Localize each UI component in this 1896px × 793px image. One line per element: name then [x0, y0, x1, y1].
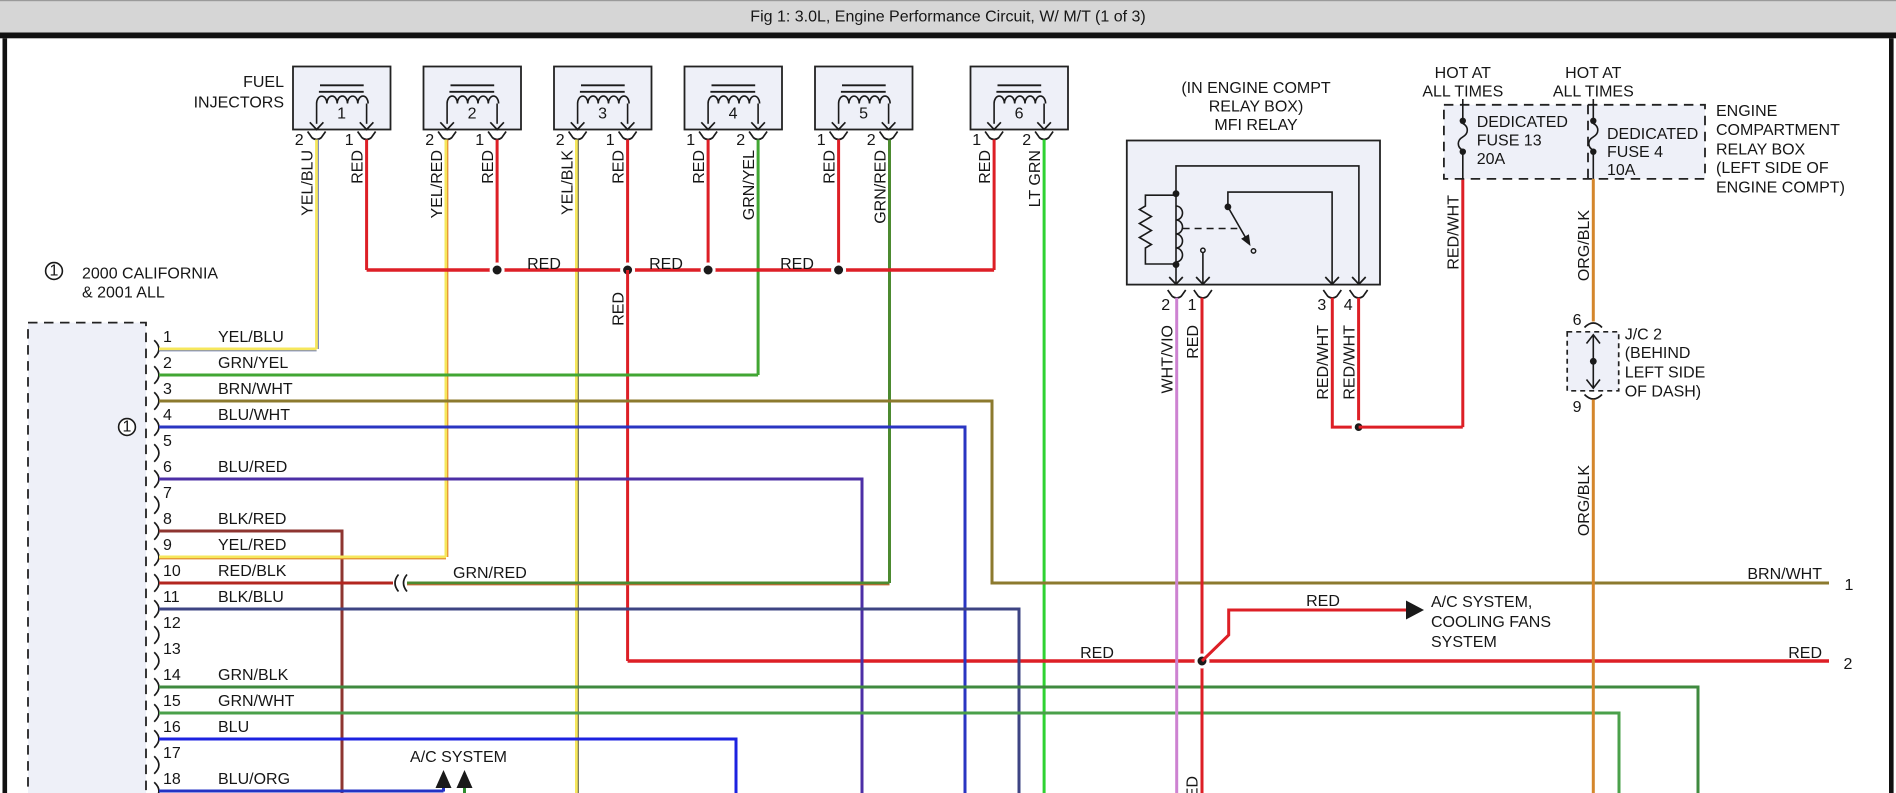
svg-text:RED: RED — [821, 150, 838, 184]
relay coil top junction — [1173, 190, 1180, 197]
right border — [1889, 38, 1894, 793]
svg-text:COMPARTMENT: COMPARTMENT — [1716, 122, 1840, 139]
svg-text:GRN/WHT: GRN/WHT — [218, 693, 295, 710]
svg-text:1: 1 — [606, 132, 615, 149]
injector 5 core — [842, 84, 886, 86]
svg-text:RELAY BOX): RELAY BOX) — [1209, 99, 1304, 116]
wire BLU/WHT row4 — [159, 427, 965, 793]
injector 6 box — [971, 67, 1069, 130]
svg-text:2: 2 — [867, 132, 876, 149]
svg-text:RED: RED — [349, 150, 366, 184]
svg-text:3: 3 — [1317, 297, 1326, 314]
svg-text:FUEL: FUEL — [243, 74, 284, 91]
svg-text:BLU: BLU — [218, 719, 249, 736]
svg-text:ORG/BLK: ORG/BLK — [1576, 210, 1593, 281]
svg-text:RED: RED — [1080, 645, 1114, 662]
svg-text:16: 16 — [163, 719, 181, 736]
svg-text:RED: RED — [1306, 593, 1340, 610]
svg-text:WHT/VIO: WHT/VIO — [1160, 325, 1177, 393]
svg-text:5: 5 — [859, 106, 868, 123]
svg-text:GRN/RED: GRN/RED — [872, 150, 889, 224]
svg-text:RED: RED — [977, 150, 994, 184]
svg-text:1: 1 — [1188, 297, 1197, 314]
svg-text:GRN/YEL: GRN/YEL — [218, 355, 288, 372]
note circled 1 on connector — [119, 419, 136, 436]
injector 3 core — [581, 84, 625, 86]
svg-text:11: 11 — [163, 589, 180, 606]
svg-text:2: 2 — [163, 355, 172, 372]
injector 4 box — [685, 67, 783, 130]
svg-text:1: 1 — [123, 419, 132, 436]
wire BLU/ORG row18 — [159, 790, 444, 793]
svg-text:3: 3 — [598, 106, 607, 123]
svg-text:YEL/BLK: YEL/BLK — [559, 150, 576, 215]
svg-text:RED: RED — [1184, 776, 1201, 793]
wire RED tap to A/C systems — [1202, 610, 1406, 661]
J/C 2 internal link — [1592, 336, 1594, 388]
svg-text:GRN/BLK: GRN/BLK — [218, 667, 289, 684]
svg-text:RED: RED — [610, 292, 627, 326]
svg-text:INJECTORS: INJECTORS — [194, 95, 284, 112]
svg-text:RED: RED — [1185, 325, 1202, 359]
junction dot injector5 — [833, 264, 845, 276]
svg-text:1: 1 — [972, 132, 981, 149]
svg-text:BLU/RED: BLU/RED — [218, 459, 287, 476]
svg-text:YEL/BLU: YEL/BLU — [218, 329, 284, 346]
svg-text:RED: RED — [610, 150, 627, 184]
junction dot injector4 — [702, 264, 714, 276]
svg-text:9: 9 — [163, 537, 172, 554]
svg-text:Fig 1: 3.0L, Engine Performanc: Fig 1: 3.0L, Engine Performance Circuit,… — [750, 9, 1145, 26]
svg-text:BLU/WHT: BLU/WHT — [218, 407, 290, 424]
svg-text:1: 1 — [475, 132, 484, 149]
svg-text:2: 2 — [1161, 297, 1170, 314]
svg-text:RED/WHT: RED/WHT — [1446, 195, 1463, 270]
svg-text:(IN ENGINE COMPT: (IN ENGINE COMPT — [1181, 80, 1331, 97]
svg-text:(BEHIND: (BEHIND — [1625, 345, 1691, 362]
connector pin 17 terminal — [154, 756, 159, 773]
connector pin 9 terminal — [154, 548, 159, 565]
injector 4 core — [712, 84, 756, 86]
svg-text:HOT AT: HOT AT — [1435, 65, 1492, 82]
connector pin 13 terminal — [154, 652, 159, 669]
svg-text:MFI RELAY: MFI RELAY — [1214, 117, 1298, 134]
svg-text:ALL TIMES: ALL TIMES — [1422, 84, 1503, 101]
svg-text:RED: RED — [780, 256, 814, 273]
svg-text:YEL/RED: YEL/RED — [218, 537, 286, 554]
relay actuation dashed link — [1183, 228, 1238, 230]
wire BLK/RED row8 — [159, 531, 342, 793]
svg-text:RED/WHT: RED/WHT — [1341, 325, 1358, 400]
svg-text:RED/WHT: RED/WHT — [1315, 325, 1332, 400]
svg-text:8: 8 — [163, 511, 172, 528]
wire GRN/WHT row15 — [159, 713, 1619, 793]
title bar — [0, 0, 1896, 33]
wire RED relay pin1 — [1201, 298, 1204, 793]
svg-text:2: 2 — [736, 132, 745, 149]
wire YEL/RED row9 — [159, 556, 446, 559]
svg-text:2: 2 — [468, 106, 477, 123]
junction dot RED/WHT — [1353, 422, 1364, 433]
wire BLK/BLU row11 — [159, 609, 1019, 793]
wire RED/WHT relay pin4 — [1357, 298, 1360, 427]
relay resistor — [1139, 195, 1176, 264]
svg-text:(LEFT SIDE OF: (LEFT SIDE OF — [1716, 160, 1829, 177]
svg-text:COOLING FANS: COOLING FANS — [1431, 614, 1551, 631]
relay switch contact open circle — [1251, 249, 1255, 253]
top border — [0, 33, 1896, 39]
svg-text:ENGINE: ENGINE — [1716, 103, 1777, 120]
svg-text:GRN/RED: GRN/RED — [453, 565, 527, 582]
relay pin terminals — [1168, 290, 1186, 298]
fuse F4 DEDICATED FUSE 4 10A — [1592, 99, 1594, 118]
fuse box dashed — [1444, 105, 1705, 179]
relay switch arm — [1228, 207, 1247, 240]
svg-text:A/C SYSTEM,: A/C SYSTEM, — [1431, 594, 1532, 611]
connector pin 15 terminal — [154, 704, 159, 721]
wire GRN/RED injector5 pin2 — [888, 140, 891, 584]
relay coil bottom junction — [1173, 261, 1180, 268]
wire WHT/VIO relay pin2 — [1175, 298, 1178, 793]
connector pin 11 terminal — [154, 600, 159, 617]
svg-text:DEDICATED: DEDICATED — [1477, 114, 1568, 131]
junction connector J/C 2 pin 9 terminal — [1585, 395, 1603, 400]
svg-text:6: 6 — [163, 459, 172, 476]
wire RED injector5 pin1 — [837, 140, 840, 271]
injector 1 core — [320, 84, 364, 86]
injector 4 coil — [708, 96, 759, 103]
wire RED/WHT relay pin3 — [1332, 298, 1358, 427]
svg-text:BRN/WHT: BRN/WHT — [218, 381, 293, 398]
wire GRN/YEL row2 — [159, 374, 758, 377]
wire YEL/BLU row1 — [159, 348, 317, 351]
injector 1 terminals — [308, 132, 326, 140]
svg-text:15: 15 — [163, 693, 181, 710]
connector pin 1 terminal — [154, 340, 159, 357]
svg-text:RED: RED — [1788, 645, 1822, 662]
left border — [3, 38, 8, 793]
svg-text:FUSE 13: FUSE 13 — [1477, 133, 1542, 150]
wire BRN/WHT row3 — [159, 401, 1829, 583]
connector pin 3 terminal — [154, 392, 159, 409]
svg-text:DEDICATED: DEDICATED — [1607, 126, 1698, 143]
svg-text:BLK/RED: BLK/RED — [218, 511, 286, 528]
connector pin 5 terminal — [154, 444, 159, 461]
svg-text:2: 2 — [295, 132, 304, 149]
svg-text:3: 3 — [163, 381, 172, 398]
connector pin 8 terminal — [154, 522, 159, 539]
svg-text:HOT AT: HOT AT — [1565, 65, 1622, 82]
svg-text:6: 6 — [1015, 106, 1024, 123]
svg-text:GRN/YEL: GRN/YEL — [741, 150, 758, 220]
connector pin 12 terminal — [154, 626, 159, 643]
arrowhead to A/C cooling fans — [1406, 601, 1424, 620]
injector 4 terminals — [699, 132, 717, 140]
svg-text:RELAY BOX: RELAY BOX — [1716, 142, 1806, 159]
injector 6 core — [998, 84, 1042, 86]
wire GRN/BLK row14 — [159, 687, 1698, 793]
svg-text:17: 17 — [163, 745, 181, 762]
svg-text:9: 9 — [1573, 399, 1582, 416]
connector block dashed box — [28, 323, 146, 793]
wire ORG/BLK below J/C 2 — [1592, 400, 1595, 793]
inline connector row10 — [395, 575, 399, 592]
injector 6 coil — [994, 96, 1046, 103]
svg-text:7: 7 — [163, 485, 172, 502]
svg-text:2: 2 — [1022, 132, 1031, 149]
svg-text:10: 10 — [163, 563, 181, 580]
svg-text:FUSE 4: FUSE 4 — [1607, 144, 1663, 161]
svg-text:& 2001 ALL: & 2001 ALL — [82, 285, 165, 302]
connector pin 7 terminal — [154, 496, 159, 513]
connector pin 6 terminal — [154, 470, 159, 487]
svg-text:18: 18 — [163, 771, 181, 788]
relay internal wire pivot to pin3 — [1228, 192, 1332, 284]
injector 2 core — [451, 84, 495, 86]
wire ORG/BLK from fuse 4 — [1592, 179, 1595, 322]
fuse F13 DEDICATED FUSE 13 20A — [1462, 99, 1464, 118]
relay coil — [1175, 194, 1177, 265]
wire BLU row16 — [159, 739, 736, 793]
relay internal wire coil-top to pin4 — [1176, 166, 1359, 284]
junction connector J/C 2 box — [1567, 332, 1619, 391]
wire YEL/BLU injector1 pin2 — [315, 140, 318, 350]
svg-text:1: 1 — [686, 132, 695, 149]
connector pin 16 terminal — [154, 730, 159, 747]
wire RED injector6 pin1 — [993, 140, 996, 271]
relay pin arrows — [1169, 277, 1183, 284]
connector pin 2 terminal — [154, 366, 159, 383]
wire RED long horizontal to right edge — [628, 659, 1829, 662]
svg-text:OF DASH): OF DASH) — [1625, 384, 1701, 401]
svg-text:1: 1 — [1845, 577, 1854, 594]
junction dot injector2 — [491, 264, 503, 276]
svg-text:LEFT SIDE: LEFT SIDE — [1625, 365, 1706, 382]
svg-text:2: 2 — [1844, 656, 1853, 673]
injector 1 box — [293, 67, 391, 130]
injector 5 terminals — [830, 132, 848, 140]
connector pin 18 terminal — [154, 782, 159, 793]
svg-text:2: 2 — [556, 132, 565, 149]
svg-text:4: 4 — [1344, 297, 1353, 314]
svg-text:A/C SYSTEM: A/C SYSTEM — [410, 749, 507, 766]
injector 2 terminals — [438, 132, 456, 140]
J/C 2 junction dot — [1590, 358, 1597, 365]
wire RED injector3 pin1 — [626, 140, 629, 271]
injector 3 terminals — [569, 132, 587, 140]
wire RED down from bus to row13 line — [626, 270, 629, 661]
injector 5 box — [815, 67, 913, 130]
svg-text:BLK/BLU: BLK/BLU — [218, 589, 284, 606]
svg-text:10A: 10A — [1607, 162, 1636, 179]
junction dot RED at long bus — [1196, 655, 1208, 667]
wire RED injector1 pin1 — [365, 140, 368, 271]
wire GRN/RED row10 right — [407, 582, 890, 585]
svg-text:1: 1 — [337, 106, 346, 123]
svg-text:LT GRN: LT GRN — [1027, 150, 1044, 207]
svg-text:RED: RED — [649, 256, 683, 273]
svg-text:RED/BLK: RED/BLK — [218, 563, 287, 580]
svg-text:SYSTEM: SYSTEM — [1431, 634, 1497, 651]
junction dot injector3 — [622, 264, 634, 276]
svg-text:12: 12 — [163, 615, 181, 632]
svg-text:RED: RED — [691, 150, 708, 184]
fuse box divider — [1587, 105, 1589, 179]
svg-text:RED: RED — [480, 150, 497, 184]
wire RED injector4 pin1 — [707, 140, 710, 271]
svg-text:4: 4 — [163, 407, 172, 424]
relay fixed contact pin1 — [1201, 248, 1205, 252]
svg-text:2000 CALIFORNIA: 2000 CALIFORNIA — [82, 266, 218, 283]
svg-text:1: 1 — [817, 132, 826, 149]
svg-text:J/C 2: J/C 2 — [1625, 326, 1662, 343]
svg-text:6: 6 — [1573, 312, 1582, 329]
svg-text:RED: RED — [527, 256, 561, 273]
wire YEL/RED injector2 pin2 — [445, 140, 448, 558]
svg-text:BRN/WHT: BRN/WHT — [1747, 566, 1822, 583]
arrow to A/C system green — [457, 770, 473, 788]
connector pin 14 terminal — [154, 678, 159, 695]
svg-text:4: 4 — [729, 106, 738, 123]
svg-text:YEL/RED: YEL/RED — [429, 150, 446, 218]
svg-text:14: 14 — [163, 667, 181, 684]
svg-text:YEL/BLU: YEL/BLU — [299, 150, 316, 216]
arrow to A/C system blue — [436, 770, 452, 788]
wire RED/WHT to fuse 13 — [1359, 426, 1463, 429]
wire YEL/BLK injector3 pin2 — [575, 140, 578, 793]
injector 6 terminals — [985, 132, 1003, 140]
svg-text:ALL TIMES: ALL TIMES — [1553, 84, 1634, 101]
connector pin 10 terminal — [154, 574, 159, 591]
injector 2 coil — [447, 96, 498, 103]
svg-text:ORG/BLK: ORG/BLK — [1576, 465, 1593, 536]
svg-text:20A: 20A — [1477, 151, 1506, 168]
svg-text:13: 13 — [163, 641, 181, 658]
wire GRN/YEL injector4 pin2 — [757, 140, 760, 376]
wire RED injector supply bus — [367, 268, 995, 271]
injector 1 coil — [317, 96, 368, 103]
injector 3 coil — [578, 96, 629, 103]
junction connector J/C 2 pin 6 terminal — [1585, 323, 1603, 328]
svg-text:BLU/ORG: BLU/ORG — [218, 771, 290, 788]
svg-text:5: 5 — [163, 433, 172, 450]
svg-text:ENGINE COMPT): ENGINE COMPT) — [1716, 180, 1845, 197]
svg-text:1: 1 — [345, 132, 354, 149]
wire RED/BLK row10 — [159, 582, 393, 585]
note circled 1 — [46, 263, 63, 280]
injector 5 coil — [839, 96, 890, 103]
injector 2 box — [424, 67, 522, 130]
relay box — [1127, 141, 1380, 285]
svg-text:1: 1 — [50, 263, 59, 280]
wire LT GRN injector6 pin2 — [1043, 140, 1046, 793]
injector 3 box — [554, 67, 652, 130]
wire RED injector2 pin1 — [496, 140, 499, 271]
svg-text:2: 2 — [425, 132, 434, 149]
svg-text:1: 1 — [163, 329, 172, 346]
wire BLU/RED row6 — [159, 479, 862, 793]
connector pin 4 terminal — [154, 418, 159, 435]
relay switch pivot — [1225, 204, 1232, 211]
